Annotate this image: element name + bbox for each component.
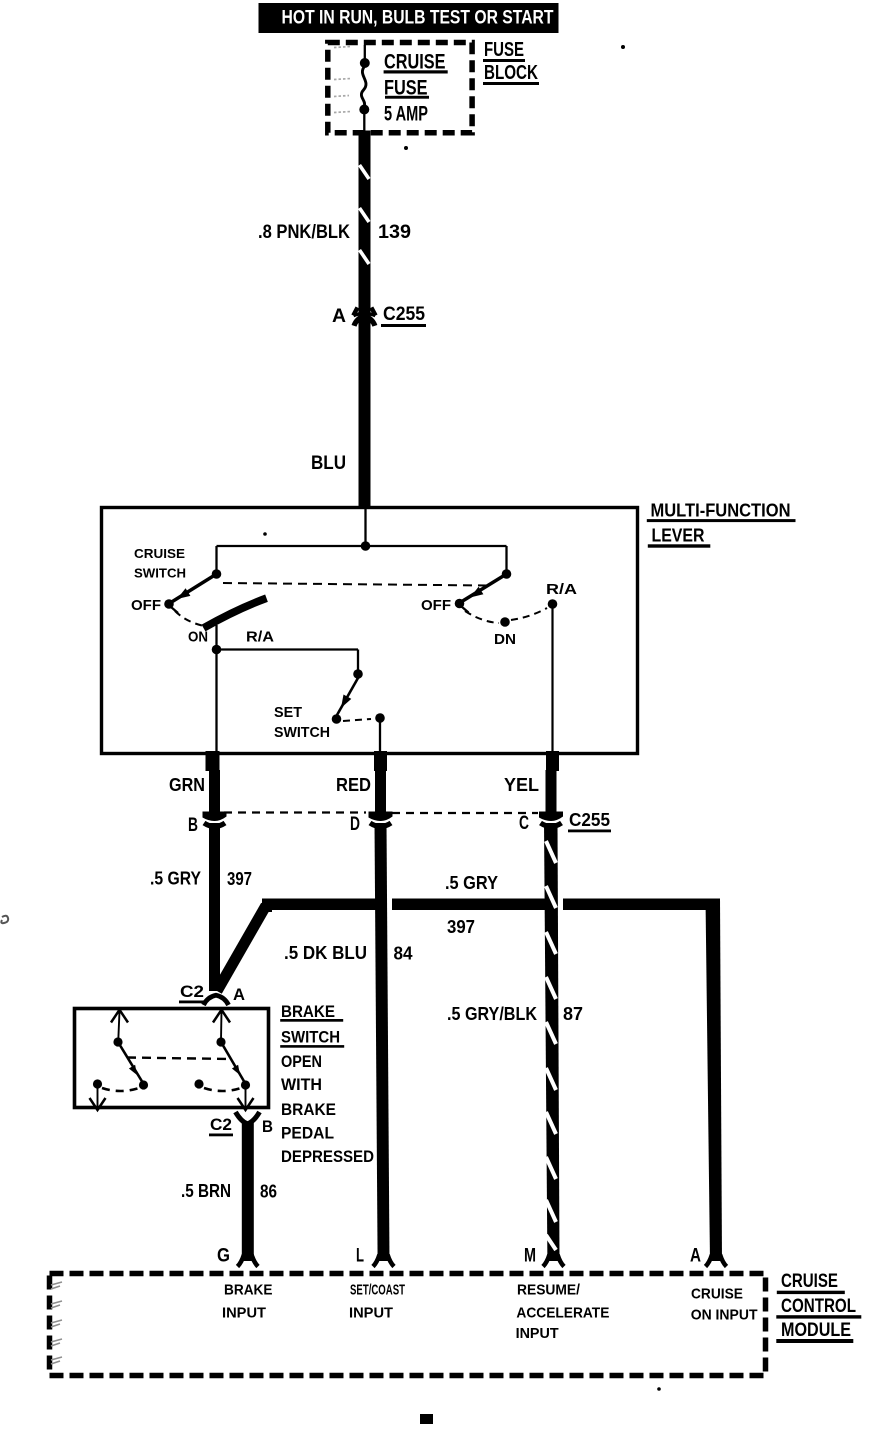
dashed linkage brake switch (127, 1058, 230, 1060)
fuse block edge hatch marks (334, 47, 351, 113)
brake switch left pivot (113, 1037, 122, 1046)
svg-text:C255: C255 (569, 810, 610, 830)
svg-text:CRUISE: CRUISE (134, 546, 185, 561)
dashed travel arc left (102, 1088, 139, 1091)
crossing gap at resume wire (558, 898, 564, 912)
svg-text:R/A: R/A (246, 629, 274, 646)
svg-text:SET: SET (274, 704, 302, 721)
dashed connector line C255 (224, 811, 366, 813)
svg-text:A: A (332, 306, 346, 327)
svg-text:MODULE: MODULE (781, 1320, 851, 1341)
svg-text:SWITCH: SWITCH (274, 724, 330, 741)
svg-text:PEDAL: PEDAL (281, 1124, 334, 1143)
wire RED stub (375, 770, 386, 814)
svg-text:A: A (233, 985, 245, 1004)
svg-text:CONTROL: CONTROL (781, 1296, 856, 1317)
svg-text:C2: C2 (210, 1115, 232, 1134)
crossing gap at set/coast wire (387, 898, 392, 912)
svg-text:87: 87 (563, 1004, 583, 1024)
svg-text:CRUISE: CRUISE (781, 1271, 838, 1292)
wire .5 DK BLU 84 from pin D to module pin L (375, 823, 390, 1261)
brake switch right arm up arrow (213, 1010, 230, 1040)
brake switch right down arrow (238, 1086, 254, 1110)
brake switch box (75, 1009, 269, 1108)
svg-text:ACCELERATE: ACCELERATE (516, 1305, 609, 1322)
svg-text:.5 GRY/BLK: .5 GRY/BLK (447, 1004, 537, 1024)
label BRAKE INPUT (222, 1282, 273, 1322)
set switch blade (337, 678, 358, 715)
svg-text:FUSE: FUSE (484, 39, 524, 61)
wire .8 PNK/BLK 139 from fuse to C255 (359, 131, 371, 313)
module edge hatch marks (51, 1282, 62, 1364)
svg-text:84: 84 (394, 944, 413, 964)
svg-text:DEPRESSED: DEPRESSED (281, 1147, 374, 1166)
wire left leg down (215, 650, 217, 755)
brake switch left down arrow (90, 1086, 106, 1110)
label FUSE BLOCK (483, 39, 539, 85)
svg-text:MULTI-FUNCTION: MULTI-FUNCTION (651, 500, 791, 520)
svg-text:HOT IN RUN, BULB TEST OR START: HOT IN RUN, BULB TEST OR START (282, 8, 554, 29)
svg-text:C255: C255 (383, 304, 425, 325)
svg-text:.5 GRY: .5 GRY (445, 873, 498, 893)
node left lower contact (93, 1079, 102, 1088)
node left blade end (139, 1080, 148, 1089)
svg-text:C: C (519, 813, 529, 834)
svg-text:GRN: GRN (169, 775, 205, 795)
label BRAKE SWITCH OPEN WITH BRAKE PEDAL DEPRESSED (280, 1002, 374, 1166)
node OFF left (164, 599, 174, 609)
svg-text:D: D (350, 814, 360, 835)
label RESUME/ACCELERATE INPUT (516, 1282, 610, 1343)
svg-text:INPUT: INPUT (349, 1305, 393, 1322)
svg-text:139: 139 (378, 222, 411, 243)
left margin scan mark (1, 916, 8, 923)
wire .5 GRY 397 from pin B to brake switch (209, 823, 220, 991)
wire ON contact down (215, 625, 217, 650)
label MULTI-FUNCTION LEVER (647, 500, 796, 547)
svg-text:YEL: YEL (504, 775, 539, 795)
wire .5 GRY/BLK 87 from pin C to module pin M (544, 823, 560, 1261)
svg-text:.8 PNK/BLK: .8 PNK/BLK (258, 222, 350, 243)
connector C255 pin B (203, 812, 227, 827)
wire set contact down (379, 718, 381, 754)
svg-text:OPEN: OPEN (281, 1052, 322, 1071)
svg-text:397: 397 (227, 869, 252, 889)
brake switch left arm up arrow (111, 1010, 128, 1040)
svg-text:G: G (217, 1246, 230, 1267)
label CRUISE ON INPUT (691, 1286, 758, 1324)
brake switch right blade (221, 1042, 245, 1083)
cruise switch right pivot (502, 569, 512, 579)
svg-text:OFF: OFF (131, 597, 161, 614)
node right lower contact (194, 1079, 203, 1088)
dashed set contact (343, 719, 371, 721)
cruise fuse F (5 amp) (359, 45, 370, 131)
module pin L connector (373, 1255, 394, 1267)
label SET/COAST INPUT (349, 1282, 405, 1322)
svg-text:.5 BRN: .5 BRN (181, 1181, 231, 1201)
wire 397 branch diagonal (217, 906, 266, 992)
lever box bottom stubs (206, 751, 220, 771)
svg-text:M: M (524, 1246, 536, 1267)
cruise switch left blade to OFF (170, 574, 217, 603)
svg-text:OFF: OFF (421, 597, 451, 614)
label CRUISE CONTROL MODULE (776, 1271, 861, 1343)
svg-text:ON INPUT: ON INPUT (691, 1306, 758, 1323)
module pin A connector (706, 1255, 727, 1267)
svg-text:CRUISE: CRUISE (691, 1286, 743, 1303)
svg-text:86: 86 (260, 1182, 277, 1202)
power feed banner HOT IN RUN (259, 3, 559, 33)
dashed linkage line (223, 583, 489, 586)
svg-text:C2: C2 (180, 982, 204, 1001)
set switch feed (357, 650, 359, 675)
label C255 (381, 304, 426, 327)
node ON junction (212, 645, 222, 655)
wire 397 branch horizontal (262, 899, 720, 911)
svg-text:L: L (356, 1246, 364, 1267)
module pin G connector (238, 1255, 259, 1267)
multi-function lever box (102, 508, 638, 754)
connector C255 pin C (539, 812, 563, 827)
wire internal feed (217, 508, 507, 574)
node junction feed (361, 541, 371, 551)
svg-text:RESUME/: RESUME/ (517, 1282, 581, 1299)
wiper arc R/A left (204, 598, 267, 628)
svg-text:BRAKE: BRAKE (224, 1282, 273, 1299)
svg-text:5 AMP: 5 AMP (384, 103, 428, 126)
svg-text:BRAKE: BRAKE (281, 1002, 335, 1021)
svg-text:RED: RED (336, 775, 371, 795)
dashed travel arc right (204, 1088, 241, 1091)
node DN (500, 617, 510, 627)
svg-text:DN: DN (494, 631, 516, 648)
connector C255 pin A (inline) (353, 308, 375, 326)
wire GRN stub (209, 770, 220, 814)
module pin M connector (543, 1255, 564, 1267)
svg-text:ON: ON (188, 629, 208, 646)
cruise control module dashed box (50, 1274, 766, 1376)
wire YEL stub (546, 770, 557, 814)
svg-text:.5 DK BLU: .5 DK BLU (284, 943, 367, 963)
svg-text:A: A (690, 1246, 701, 1267)
svg-text:SWITCH: SWITCH (134, 566, 186, 581)
svg-text:B: B (188, 815, 198, 836)
svg-text:397: 397 (447, 917, 475, 937)
svg-text:SET/COAST: SET/COAST (350, 1282, 405, 1299)
dashed travel arc right to DN (465, 611, 499, 623)
brake switch right pivot (216, 1037, 225, 1046)
svg-text:R/A: R/A (546, 581, 577, 598)
node set switch lower (332, 714, 342, 724)
wire BLU to multi-function lever (359, 318, 371, 508)
wire .5 BRN 86 to module pin G (242, 1122, 254, 1261)
svg-text:INPUT: INPUT (516, 1325, 559, 1342)
wire 397 branch down to module pin A (706, 899, 723, 1262)
brake switch left blade (118, 1042, 143, 1083)
scan speck marks (263, 45, 661, 1424)
svg-text:BLU: BLU (311, 453, 346, 474)
svg-text:BLOCK: BLOCK (484, 62, 538, 84)
node R/A right (548, 599, 558, 609)
wire R/A leg down (551, 604, 553, 754)
label C255 row (568, 810, 611, 832)
svg-text:INPUT: INPUT (222, 1305, 266, 1322)
svg-text:CRUISE: CRUISE (384, 51, 446, 74)
cruise switch right blade to OFF (461, 574, 507, 602)
svg-text:.5 GRY: .5 GRY (150, 869, 201, 889)
connector C255 pin D (369, 812, 393, 827)
cruise switch left pivot (212, 569, 222, 579)
node right blade end (241, 1080, 250, 1089)
svg-text:BRAKE: BRAKE (281, 1100, 336, 1119)
connector C2 pin B (236, 1112, 260, 1124)
connector C2 pin A (204, 995, 229, 1005)
node set contact (375, 713, 385, 723)
node OFF right (455, 599, 465, 609)
svg-text:B: B (262, 1117, 273, 1136)
svg-text:SWITCH: SWITCH (281, 1028, 340, 1047)
svg-text:WITH: WITH (281, 1075, 322, 1094)
fuse block dashed box (328, 43, 472, 133)
svg-text:LEVER: LEVER (652, 525, 705, 545)
wire to set switch (217, 648, 359, 650)
dashed travel arc DN to R/A (511, 608, 547, 620)
label CRUISE FUSE 5 AMP (384, 51, 448, 126)
dashed travel arc left (175, 611, 204, 626)
